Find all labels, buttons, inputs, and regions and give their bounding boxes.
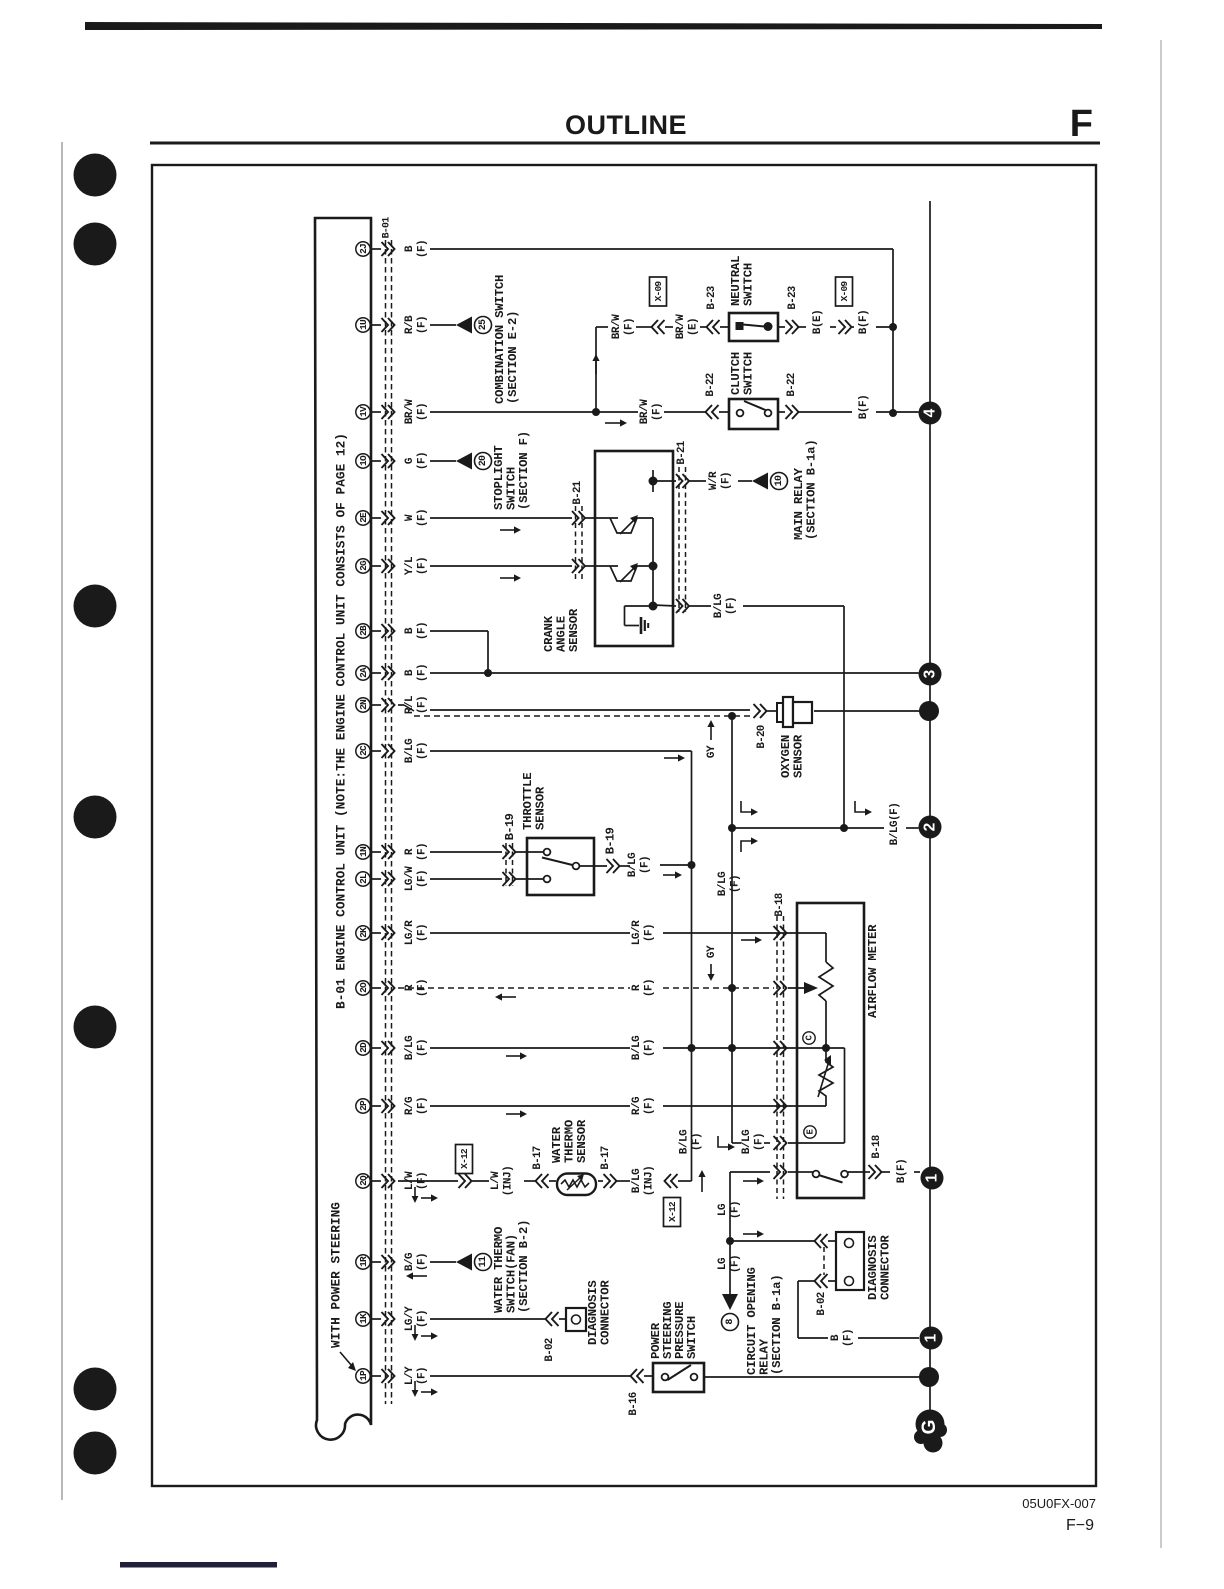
water thermo sensor (557, 1174, 596, 1196)
svg-text:(F): (F) (730, 1201, 742, 1219)
branch up to neutral switch row (595, 327, 597, 412)
svg-text:05U0FX-007: 05U0FX-007 (1022, 1496, 1096, 1511)
wire 1O G to stoplight switch (430, 460, 456, 462)
svg-text:2E: 2E (358, 512, 369, 523)
connector X-09 left (650, 277, 667, 306)
svg-text:20: 20 (478, 455, 489, 466)
page left edge line (61, 142, 63, 1500)
svg-text:B-19: B-19 (604, 827, 618, 854)
svg-text:B: B (404, 669, 416, 676)
svg-text:B-21: B-21 (572, 480, 584, 504)
svg-text:2A: 2A (358, 667, 369, 678)
wire 2D B/LG (430, 1047, 630, 1049)
svg-text:B/LG: B/LG (627, 852, 639, 877)
B/LG collector to node 2 (732, 827, 884, 829)
svg-text:2P: 2P (358, 1100, 369, 1111)
connector B-02 lower (821, 1274, 828, 1288)
pin 1K (356, 1312, 370, 1326)
pin 1V (356, 405, 370, 419)
svg-text:(F): (F) (652, 403, 664, 421)
node junction dot at neutral row (889, 323, 897, 331)
svg-text:(F): (F) (644, 1097, 656, 1115)
ground symbol G (916, 1410, 945, 1439)
svg-text:B-23: B-23 (787, 286, 799, 309)
pin 1N (356, 845, 370, 859)
svg-text:(F): (F) (417, 924, 429, 942)
svg-text:B/LG(F): B/LG(F) (889, 803, 901, 846)
svg-text:W: W (404, 514, 416, 521)
crank sensor pickup coil 2 (610, 566, 653, 581)
svg-text:1K: 1K (358, 1313, 369, 1324)
svg-text:(F): (F) (644, 979, 656, 997)
svg-text:B/LG: B/LG (741, 1129, 753, 1154)
main relay arrow 10 (752, 473, 768, 490)
pin 2D (356, 1041, 370, 1055)
connector B-17 right (598, 1180, 603, 1182)
svg-text:(F): (F) (417, 452, 429, 470)
wire 1R B/G to water thermo switch (430, 1261, 456, 1263)
svg-text:R/G: R/G (631, 1096, 643, 1115)
svg-text:B: B (404, 627, 416, 634)
wire 2G Y/L to crank angle sensor (430, 565, 572, 567)
wire 1P L/Y to power steering pressure switch (430, 1375, 630, 1377)
throttle sensor box (527, 838, 594, 895)
pin 2O (356, 981, 370, 995)
clutch switch connector B-22 right (778, 411, 785, 413)
wire 2J corner down to node 4 (892, 249, 894, 413)
connector X-09 right (836, 277, 853, 306)
svg-text:(F): (F) (730, 1255, 742, 1273)
svg-text:LG: LG (717, 1203, 729, 1216)
svg-text:LG: LG (717, 1257, 729, 1270)
pin 2A (356, 666, 370, 680)
svg-text:BR/W: BR/W (404, 399, 416, 424)
svg-text:(F): (F) (417, 843, 429, 861)
net number 1 (diagnosis) (920, 1327, 943, 1350)
airflow switch row left (730, 1171, 770, 1173)
svg-text:1V: 1V (358, 406, 369, 417)
svg-text:R: R (404, 848, 416, 855)
throttle output wire B/LG (579, 865, 607, 867)
svg-text:(F): (F) (644, 1039, 656, 1057)
pin 2J (356, 242, 370, 256)
svg-text:B-20: B-20 (756, 725, 768, 748)
svg-text:CONNECTOR: CONNECTOR (879, 1235, 893, 1300)
svg-text:B-18: B-18 (871, 1135, 883, 1158)
wire 2C B/LG ground lead (430, 750, 692, 752)
svg-text:25: 25 (478, 319, 489, 330)
svg-text:2C: 2C (358, 745, 369, 756)
crank sensor ground branch (625, 605, 654, 607)
GY wire vertical (731, 716, 733, 1143)
svg-text:(F): (F) (726, 597, 738, 615)
svg-text:W/R: W/R (708, 471, 720, 490)
svg-text:Y/L: Y/L (404, 556, 416, 575)
svg-text:SENSOR: SENSOR (792, 734, 806, 778)
wire 1N R (430, 851, 502, 853)
svg-text:(F): (F) (417, 403, 429, 421)
neutral switch feed wire BR/W(F) (596, 326, 608, 328)
diagram frame (152, 165, 1096, 1486)
svg-text:B(E): B(E) (812, 310, 824, 334)
wire W/R main relay feed (653, 480, 676, 482)
svg-text:2Q: 2Q (358, 1175, 369, 1186)
svg-text:X-09: X-09 (839, 281, 850, 302)
svg-text:(INJ): (INJ) (503, 1166, 515, 1197)
wire 2E W to crank angle sensor (430, 517, 572, 519)
circuit opening relay arrow 8 (722, 1294, 738, 1310)
svg-text:(INJ): (INJ) (644, 1166, 656, 1197)
svg-text:(F): (F) (644, 924, 656, 942)
pin 1U (356, 318, 370, 332)
svg-text:B-23: B-23 (706, 286, 718, 309)
svg-text:B(F): B(F) (858, 395, 870, 419)
water thermo switch arrow 11 (456, 1254, 472, 1271)
B-02 dashed link (823, 1247, 825, 1275)
svg-text:1U: 1U (358, 319, 369, 330)
svg-text:1: 1 (924, 1173, 941, 1182)
svg-text:B-16: B-16 (628, 1392, 640, 1415)
circled terminal C (803, 1032, 815, 1044)
svg-text:B-17: B-17 (600, 1146, 612, 1169)
svg-text:1N: 1N (358, 846, 369, 857)
svg-text:2K: 2K (358, 927, 369, 938)
svg-text:B/LG: B/LG (404, 738, 416, 763)
svg-text:(F): (F) (417, 664, 429, 682)
combination switch arrow 25 (456, 317, 472, 334)
pin 2K (356, 926, 370, 940)
svg-text:B-19: B-19 (503, 813, 517, 840)
connector B-20 (754, 704, 761, 718)
svg-text:BR/W: BR/W (675, 314, 687, 339)
svg-text:F: F (1070, 103, 1093, 145)
page right edge line (1160, 40, 1162, 1548)
svg-text:B-17: B-17 (532, 1146, 544, 1169)
wire B(F) from diagnosis to node 1 (798, 1280, 814, 1282)
svg-text:BR/W: BR/W (639, 399, 651, 424)
wire 2Q L/W injector feed (398, 1180, 458, 1182)
diagnosis connector 2 (836, 1232, 864, 1290)
ground bundle vertical (691, 751, 693, 1181)
ground symbol in crank sensor (640, 617, 643, 634)
svg-text:(SECTION B-2): (SECTION B-2) (517, 1220, 531, 1313)
svg-text:R/G: R/G (404, 1096, 416, 1115)
svg-text:G: G (919, 1420, 940, 1435)
wire 2O R dashed (398, 987, 630, 989)
svg-text:4: 4 (922, 408, 939, 417)
node junction dot at clutch row (889, 409, 897, 417)
svg-text:B/LG: B/LG (713, 593, 725, 618)
svg-text:GY: GY (706, 745, 718, 758)
GY tap arrow (710, 726, 712, 740)
wire 2L LG/W (430, 878, 502, 880)
pin 2L (356, 872, 370, 886)
connector X-12 right (664, 1180, 665, 1182)
svg-text:(F): (F) (624, 318, 636, 336)
pin 2E (356, 511, 370, 525)
wire 1U R/B to combination switch (430, 324, 456, 326)
svg-text:1: 1 (923, 1333, 940, 1342)
circled terminal E (804, 1126, 816, 1138)
svg-text:B/LG: B/LG (631, 1035, 643, 1060)
connector X-12 left (456, 1145, 473, 1174)
R signal wiper arrow (788, 987, 806, 989)
svg-text:(F): (F) (417, 316, 429, 334)
pin 2B (356, 624, 370, 638)
binder holes (74, 154, 117, 197)
pin 1R (356, 1255, 370, 1269)
svg-text:(SECTION E-2): (SECTION E-2) (506, 311, 520, 404)
wire BR/W(E) (665, 326, 673, 328)
svg-text:B: B (830, 1334, 842, 1341)
svg-text:B-22: B-22 (705, 373, 717, 396)
svg-text:R/L: R/L (404, 695, 416, 714)
svg-text:(F): (F) (417, 1097, 429, 1115)
svg-text:B-22: B-22 (786, 373, 798, 396)
wire B/LG from crank sensor (653, 605, 676, 606)
svg-text:SENSOR: SENSOR (534, 786, 548, 830)
svg-text:(F): (F) (417, 742, 429, 760)
svg-text:(F): (F) (417, 1367, 429, 1385)
airflow meter flap potentiometer (797, 932, 826, 934)
pin 2Q (356, 1174, 370, 1188)
svg-text:LG/W: LG/W (404, 866, 416, 891)
svg-text:(F): (F) (721, 472, 733, 490)
page top edge bar (85, 22, 1102, 30)
svg-text:R: R (631, 984, 643, 991)
svg-text:(F): (F) (691, 1133, 703, 1151)
pin 2N (356, 698, 370, 712)
svg-text:B-02: B-02 (544, 1338, 556, 1361)
svg-text:(F): (F) (417, 1039, 429, 1057)
main page bus vertical wire (929, 201, 931, 1412)
wire 2N R/L dashed (398, 704, 404, 706)
wire 2B B(F) (430, 630, 488, 632)
svg-text:2O: 2O (358, 982, 369, 993)
svg-text:F−9: F−9 (1066, 1517, 1094, 1534)
svg-text:(F): (F) (417, 622, 429, 640)
svg-text:B-02: B-02 (816, 1292, 828, 1315)
pin 2G (356, 559, 370, 573)
wire 2A B(F) to node 3 (430, 672, 919, 674)
svg-text:(F): (F) (417, 1310, 429, 1328)
svg-text:(F): (F) (843, 1329, 855, 1347)
pin 1P (356, 1369, 370, 1383)
wire 2K LG/R (430, 932, 630, 934)
svg-text:SENSOR: SENSOR (575, 1119, 589, 1163)
svg-text:SENSOR: SENSOR (567, 608, 581, 652)
svg-text:2J: 2J (358, 244, 369, 254)
svg-text:(SECTION F): (SECTION F) (517, 431, 531, 510)
svg-text:2G: 2G (358, 560, 369, 571)
net number 4 (919, 402, 942, 425)
wire B(F) to junction (852, 326, 854, 328)
svg-text:B/LG: B/LG (679, 1129, 691, 1154)
svg-text:GY: GY (706, 945, 718, 958)
svg-text:2D: 2D (358, 1042, 369, 1053)
stoplight switch arrow 20 (456, 453, 472, 470)
pin 2P (356, 1099, 370, 1113)
svg-text:AIRFLOW METER: AIRFLOW METER (866, 924, 880, 1018)
svg-text:X-09: X-09 (653, 281, 664, 302)
svg-text:8: 8 (725, 1319, 736, 1325)
corner to airflow E terminal (732, 1142, 741, 1144)
net number 2 (919, 816, 942, 839)
svg-text:WITH POWER STEERING: WITH POWER STEERING (329, 1202, 344, 1348)
svg-text:10: 10 (774, 475, 785, 486)
svg-text:(F): (F) (417, 1253, 429, 1271)
svg-text:B/LG: B/LG (404, 1035, 416, 1060)
page bottom bar (120, 1562, 277, 1568)
svg-text:(F): (F) (730, 875, 742, 893)
svg-text:(F): (F) (640, 856, 652, 874)
svg-text:(F): (F) (417, 240, 429, 258)
svg-text:SWITCH: SWITCH (685, 1316, 699, 1359)
diagnosis connector 2 branch (730, 1240, 814, 1242)
svg-text:X-12: X-12 (459, 1148, 470, 1169)
svg-text:11: 11 (478, 1256, 489, 1267)
wire 2J B(F) run (430, 248, 893, 250)
svg-text:1R: 1R (358, 1256, 369, 1267)
neutral switch (729, 313, 778, 341)
wire B(F) clutch to node 4 (799, 411, 852, 413)
connector B-18 output (865, 1171, 870, 1173)
svg-text:SWITCH: SWITCH (742, 352, 756, 395)
svg-text:(F): (F) (417, 870, 429, 888)
svg-text:2N: 2N (358, 699, 369, 710)
clutch switch (729, 399, 778, 429)
svg-text:B/LG: B/LG (631, 1168, 643, 1193)
net number 3 (919, 663, 942, 686)
airflow meter box (797, 903, 864, 1198)
svg-text:L/W: L/W (490, 1171, 502, 1190)
pin 1O (356, 454, 370, 468)
svg-text:B/LG: B/LG (717, 871, 729, 896)
svg-text:(E): (E) (688, 318, 700, 336)
svg-text:B: B (404, 245, 416, 252)
connector B-02 upper (821, 1234, 828, 1248)
svg-text:1O: 1O (358, 455, 369, 466)
svg-text:G: G (404, 457, 416, 464)
junction dot on bus (919, 701, 939, 721)
svg-text:LG/R: LG/R (631, 920, 643, 945)
crank sensor pickup coil 1 (610, 518, 653, 533)
pin 2C (356, 744, 370, 758)
svg-text:(F): (F) (417, 557, 429, 575)
svg-text:B/G: B/G (404, 1252, 416, 1271)
header rule (150, 142, 1100, 145)
wire 2P R/G (430, 1105, 630, 1107)
svg-text:CONNECTOR: CONNECTOR (599, 1280, 613, 1345)
svg-text:B-01: B-01 (382, 217, 393, 239)
diagnosis connector 1 (559, 1318, 566, 1320)
svg-text:(F): (F) (417, 509, 429, 527)
svg-text:B-01 ENGINE CONTROL UNIT (NOT: B-01 ENGINE CONTROL UNIT (NOTE:THE ENGIN… (334, 433, 349, 1009)
svg-text:B-21: B-21 (676, 440, 688, 464)
svg-text:3: 3 (922, 669, 939, 678)
crank angle sensor box (595, 451, 673, 646)
svg-text:B(F): B(F) (858, 310, 870, 334)
svg-text:B(F): B(F) (896, 1159, 908, 1183)
svg-text:SWITCH: SWITCH (742, 263, 756, 306)
oxygen sensor (777, 703, 783, 722)
junction node BR/W split (430, 411, 596, 413)
wire B(E) (799, 326, 806, 328)
svg-text:2B: 2B (358, 625, 369, 636)
svg-text:(SECTION B-1a): (SECTION B-1a) (805, 439, 819, 540)
airflow meter pump switch (813, 1171, 820, 1178)
svg-text:(F): (F) (417, 696, 429, 714)
svg-text:2L: 2L (358, 873, 369, 884)
svg-text:X-12: X-12 (667, 1201, 678, 1222)
svg-text:1P: 1P (358, 1370, 369, 1381)
svg-text:R/B: R/B (404, 315, 416, 334)
svg-text:OUTLINE: OUTLINE (565, 110, 687, 140)
air temp sensor resistor (819, 1048, 833, 1106)
connector B-23 right (778, 326, 785, 328)
svg-text:(F): (F) (754, 1133, 766, 1151)
power steering pressure switch (653, 1363, 704, 1392)
svg-text:COMBINATION SWITCH: COMBINATION SWITCH (493, 275, 507, 404)
crank sensor internal bus wire (652, 518, 654, 606)
B/LG corner down (843, 606, 845, 828)
svg-text:LG/R: LG/R (404, 920, 416, 945)
svg-text:2: 2 (922, 823, 939, 832)
connector B-02 (552, 1312, 559, 1326)
svg-text:(SECTION B-1a): (SECTION B-1a) (770, 1274, 784, 1375)
svg-text:B-18: B-18 (774, 893, 786, 916)
wire 1K LG/Y to diagnosis connector (430, 1318, 545, 1320)
ECU connector box B-01 (engine control unit) (315, 218, 371, 1440)
net number 1 (airflow) (921, 1167, 944, 1190)
LG wire from airflow switch down (729, 1172, 731, 1296)
svg-text:BR/W: BR/W (611, 314, 623, 339)
